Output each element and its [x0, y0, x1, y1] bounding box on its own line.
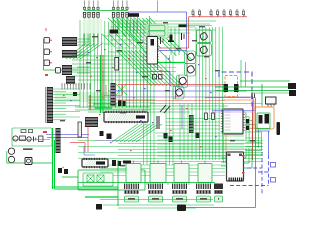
wire blue left L: [84, 146, 95, 155]
wire diagonal bundle A: [108, 18, 192, 62]
transistor Q19: [259, 115, 263, 124]
wire cap to mesh: [44, 69, 79, 71]
transistor Q5: [56, 68, 61, 74]
wire blue vert mid: [181, 105, 183, 129]
connector bank J5-J9: [124, 184, 223, 203]
component K1: [87, 175, 94, 182]
IC U2 (striped): [62, 37, 77, 46]
label 3mm: [179, 25, 187, 28]
wire verts below Q: [180, 103, 192, 160]
wire red vert x103: [102, 55, 104, 100]
wire red J3: [47, 137, 88, 139]
net label specks: [63, 44, 217, 151]
wire red left horiz: [70, 142, 85, 144]
wire orange vert: [223, 103, 225, 163]
wire top stub: [157, 1, 159, 13]
IC U10 DIP: [104, 112, 148, 122]
transistor pair Q7: [100, 131, 112, 139]
wire MCU lower fan: [246, 138, 263, 155]
wire top horizontals: [110, 21, 216, 33]
connector J4: [288, 83, 296, 96]
wire horizontals upper mesh: [104, 36, 150, 52]
transistor Q13 Q14: [164, 133, 200, 143]
wire blue vert A: [268, 131, 270, 155]
wire vertical bus right-center: [196, 27, 222, 160]
wire blue dash h2: [258, 171, 269, 173]
transistor Q15 Q16: [246, 119, 249, 130]
wire stubs right of stack: [77, 39, 90, 73]
resistor row R11-R18: [192, 10, 245, 17]
wire under label: [131, 17, 138, 33]
wire blue drop: [186, 12, 188, 51]
wire vertical bus center: [80, 20, 147, 108]
transistor Q20: [265, 114, 270, 124]
region outline inner: [83, 173, 113, 186]
tiny text labels: [60, 22, 255, 166]
wire thick green T: [157, 55, 185, 70]
region box right: [257, 113, 270, 129]
wire green pair right: [215, 81, 292, 93]
wire blue above MCU: [212, 109, 255, 111]
IC U1 MCU: [221, 109, 245, 134]
wire thick junction: [93, 55, 127, 113]
transistor Qx: [73, 92, 77, 96]
crystal Y1: [168, 35, 174, 43]
wire thick horiz: [53, 187, 119, 189]
wire blue dash v2: [268, 155, 270, 186]
component K2: [97, 175, 104, 182]
wire vert x118: [117, 160, 119, 206]
region A inner boxes: [148, 26, 165, 37]
wire red vert x90: [89, 95, 91, 110]
wire red low: [118, 100, 225, 102]
capacitor C9: [252, 93, 255, 100]
region fill B: [83, 19, 102, 34]
wire blue dash h1: [247, 167, 262, 169]
wire diagonal bundle C: [112, 124, 162, 142]
wire blue J3: [46, 134, 89, 136]
component small blue: [271, 163, 276, 183]
IC U5 (striped): [66, 76, 75, 84]
wire diagonal bundle B: [116, 50, 182, 86]
wire below MCU: [155, 133, 244, 156]
IC U13 box: [266, 97, 277, 107]
wire orange vert2: [225, 134, 227, 163]
net label mid: [110, 30, 119, 34]
IC U3 (striped): [62, 50, 77, 58]
transistor Q11 Q12: [7, 148, 52, 163]
net label box: [128, 13, 139, 17]
wire above U10: [75, 107, 150, 110]
connector pin row: [62, 84, 91, 90]
wire red drop: [188, 17, 190, 48]
IC U8 DIP vertical: [146, 37, 159, 65]
wire purple seg: [140, 67, 176, 69]
wire red mid drop: [121, 84, 123, 95]
IC U11 (striped): [85, 117, 98, 127]
wire blue corner right: [255, 130, 270, 132]
IC U14 DIP: [82, 159, 108, 167]
transistor Q3 Q4 Q5 Q6: [173, 51, 196, 99]
wire vertical bus mid: [144, 55, 174, 165]
capacitor C5 C6: [161, 37, 164, 44]
connector J3 body: [45, 87, 53, 123]
net class box (blue dashed): [219, 72, 252, 108]
wire orange mid: [150, 103, 262, 105]
transistor Q18: [234, 84, 239, 92]
transistor Q1 Q2: [197, 30, 212, 56]
wire green stub tr: [187, 25, 212, 27]
wire red return: [159, 47, 189, 49]
wire bus above connectors: [78, 183, 215, 200]
wire cap bus: [43, 39, 45, 70]
buzzer LS1: [25, 158, 32, 165]
wire diagonal into U-stack: [66, 43, 103, 59]
region wash below pins: [55, 92, 112, 102]
IC U4 (striped): [62, 65, 72, 75]
label red: [45, 74, 48, 76]
module A1 body: [227, 152, 244, 181]
wire branch: [62, 176, 78, 178]
wire red mid: [118, 84, 228, 86]
wire blue return: [159, 50, 187, 52]
wire module left stubs: [221, 158, 227, 166]
wire horizontal bus lower: [78, 141, 263, 162]
wire purple left2: [95, 140, 118, 142]
connector J10: [177, 205, 186, 212]
wire red vert A: [255, 98, 257, 208]
transistor Q17: [224, 84, 229, 92]
wire red rail: [189, 16, 248, 18]
IC U6 vertical bar: [111, 83, 116, 106]
transistor pair Q6: [118, 100, 126, 106]
wire purple above MCU: [212, 111, 253, 113]
IC U12 (gray pack): [156, 116, 160, 129]
wire verts above Q1: [171, 28, 179, 55]
net class box orange2: [254, 107, 274, 129]
wire bottom bus: [103, 205, 214, 208]
wire red left vert: [87, 124, 89, 152]
connector J12 (striped): [56, 128, 61, 153]
component cluster: [112, 160, 131, 166]
wire band mid-right: [166, 119, 220, 130]
wire blue seg: [140, 71, 176, 73]
wire red left vert2: [84, 143, 86, 153]
wire VCC blue: [128, 11, 187, 13]
wire blue mid: [108, 90, 247, 92]
wire blue dash v1: [261, 152, 263, 195]
oscillator cluster: [12, 128, 52, 146]
component pair mid: [153, 75, 163, 80]
module A1 pins: [228, 154, 245, 182]
wire green vert right: [261, 84, 263, 106]
IC U15 (striped): [189, 115, 194, 133]
resistor network RN1: [78, 122, 82, 137]
net class box (orange dashed): [225, 76, 238, 97]
wire orange corner: [222, 100, 254, 107]
wire verts into bluebox: [241, 60, 246, 87]
wire red vert x106: [105, 85, 107, 95]
resistor R21 vertical: [115, 58, 119, 71]
region boxes row: [126, 161, 212, 183]
region outline big: [78, 170, 145, 190]
wire MCU staircase: [245, 113, 261, 150]
wire header bus: [84, 10, 128, 12]
wire purple vert: [252, 97, 254, 110]
capacitor column C1-C3: [44, 28, 52, 66]
diode D1 D2: [58, 167, 68, 174]
wire J3 fanout: [53, 89, 80, 120]
wire red bottom: [186, 207, 256, 209]
wire horizontal mesh: [72, 56, 228, 112]
connector J11: [96, 204, 102, 210]
wire red right: [205, 97, 250, 99]
connector J2 pin header: [112, 1, 129, 35]
wire red vert B: [252, 103, 254, 160]
region fill A: [146, 24, 168, 38]
component X1: [277, 122, 281, 135]
capacitor C7: [182, 33, 185, 40]
arrow marks: [160, 105, 170, 113]
wire red mid2: [104, 95, 122, 97]
resistor R31 R32: [205, 113, 215, 120]
connector J1 pin header: [83, 1, 100, 47]
wire conn verts: [147, 182, 189, 185]
wire blue dash h3: [230, 185, 269, 187]
wire gray vert U8: [149, 16, 151, 37]
wire blue staircase: [150, 72, 222, 87]
label red J3: [43, 131, 47, 133]
wire horizontal bus lower2: [100, 165, 225, 176]
wire thick vert: [53, 128, 55, 189]
wire module nested: [244, 148, 253, 168]
wire purple mid: [108, 96, 253, 98]
label text small: [23, 148, 33, 150]
wire diagonal bundle A2: [102, 34, 143, 47]
